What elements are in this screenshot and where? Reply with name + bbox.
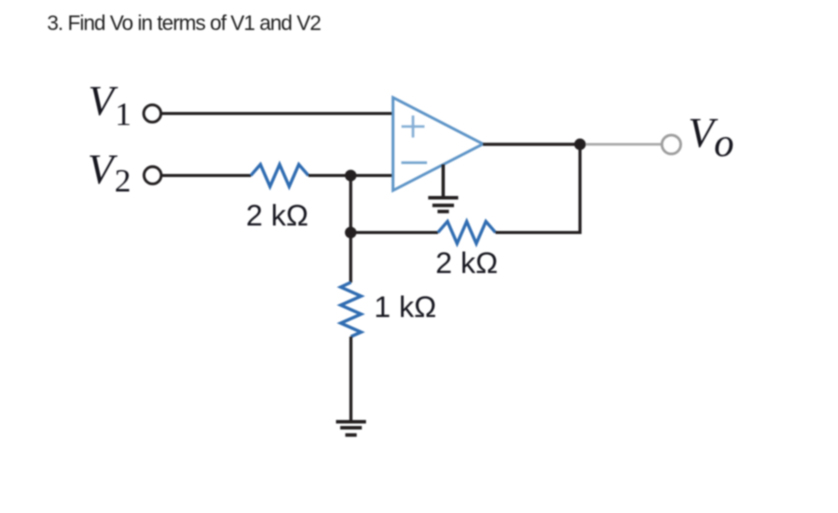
wire op-amp reference pin to ground — [442, 165, 445, 198]
wire V1 terminal to op-amp noninverting input — [161, 112, 394, 115]
svg-text:o: o — [714, 120, 734, 165]
junction node A (inverting input node) — [345, 170, 357, 182]
svg-text:1 kΩ: 1 kΩ — [374, 291, 436, 324]
resistor R3 1 kOhm (vertical) — [341, 282, 361, 336]
wire R1 to op-amp inverting input — [308, 174, 394, 177]
wire node B down to resistor R3 — [349, 233, 352, 283]
wire node B to resistor R2 — [351, 231, 438, 234]
wire op-amp output to node C — [483, 143, 580, 146]
svg-text:2 kΩ: 2 kΩ — [246, 199, 308, 232]
wire feedback vertical up to output node — [578, 144, 581, 234]
ground symbol (op-amp reference) — [428, 198, 458, 212]
op-amp minus sign (inverting input) — [401, 161, 427, 164]
resistor R2 2 kOhm (feedback) — [438, 222, 496, 244]
terminal V1 — [144, 105, 161, 122]
svg-text:2: 2 — [115, 164, 132, 200]
svg-text:1: 1 — [115, 97, 132, 133]
resistor R1 2 kOhm (input) — [251, 165, 309, 187]
wire R3 to ground — [349, 337, 352, 420]
label V1 — [88, 78, 132, 133]
junction node B (feedback node) — [345, 227, 357, 239]
junction node C (output node) — [574, 139, 586, 151]
wire (gray) node C to Vo terminal — [586, 143, 664, 146]
terminal Vo (open circle) — [662, 135, 681, 154]
terminal V2 — [144, 167, 161, 184]
svg-text:2 kΩ: 2 kΩ — [436, 247, 498, 280]
label V2 — [88, 147, 132, 200]
op-amp plus sign (noninverting input) — [402, 116, 425, 138]
wire node A down to node B — [349, 176, 352, 233]
op-amp U1 triangle — [393, 98, 483, 191]
label Vo — [688, 110, 734, 165]
ground symbol (bottom, under R3) — [336, 422, 366, 435]
svg-text:3. Find Vo in terms of V1 and: 3. Find Vo in terms of V1 and V2 — [47, 12, 321, 35]
wire R2 to output corner — [496, 231, 582, 234]
wire V2 terminal to resistor R1 — [161, 174, 251, 177]
